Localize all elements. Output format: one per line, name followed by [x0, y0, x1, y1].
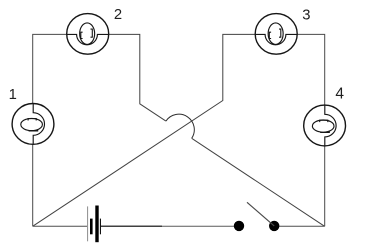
wire hop: arc jumping over crossing wire: [166, 114, 194, 138]
switch S1 left contact dot: [234, 221, 244, 231]
svg-text:1: 1: [9, 87, 17, 103]
battery B1 plate: long thin (left): [87, 206, 88, 241]
svg-text:2: 2: [114, 7, 122, 23]
wire: bottom-left corner to battery: [33, 225, 87, 227]
wire: lamp2 right to corner, down, diagonal to hop start: [109, 34, 166, 121]
wire: lamp3 right to corner and down to lamp4 top: [297, 34, 325, 105]
svg-text:3: 3: [302, 8, 310, 24]
switch S1 right contact dot: [269, 221, 279, 231]
wire: lamp1 top up and across to lamp2 left: [33, 34, 67, 103]
battery B1 plate: short thick: [90, 219, 93, 235]
wire: battery to switch left contact (light part): [162, 225, 239, 227]
battery B1 plate: long thick: [95, 206, 98, 243]
wire: lamp4 bottom down to bottom-right corner: [324, 146, 326, 226]
lamp 1 (left, vertical): [12, 104, 54, 145]
lamp 3 (top right, horizontal): [255, 14, 297, 55]
switch S1 lever (open): [247, 202, 274, 226]
battery B1 plate: short thin (right): [100, 219, 101, 235]
wire: diagonal from hop end to bottom-right corner: [192, 138, 325, 226]
wire: switch right contact to bottom-right corner: [274, 225, 325, 227]
wire: lamp1 bottom down to bottom-left corner: [32, 144, 34, 226]
lamp 4 (right, vertical): [304, 105, 346, 146]
wire: lamp3 left to corner, down, diagonal to bottom-left corner: [33, 34, 255, 226]
wire: battery to switch left contact (dark part): [101, 225, 162, 227]
svg-text:4: 4: [335, 86, 344, 103]
lamp 2 (top left, horizontal): [67, 14, 109, 55]
